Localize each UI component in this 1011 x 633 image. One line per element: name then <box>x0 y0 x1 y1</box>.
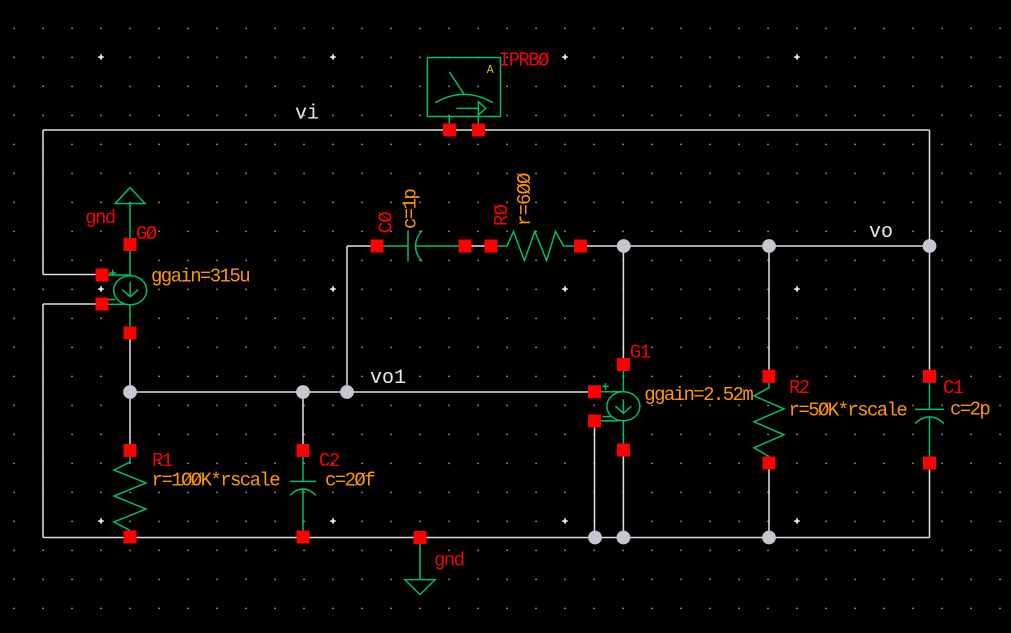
svg-text:r=5ØK*rscale: r=5ØK*rscale <box>789 400 908 422</box>
svg-text:G1: G1 <box>630 342 651 364</box>
svg-text:RØ: RØ <box>491 204 513 226</box>
svg-text:ggain=2.52m: ggain=2.52m <box>644 384 753 406</box>
svg-text:IPRBØ: IPRBØ <box>499 50 549 72</box>
svg-text:A: A <box>487 64 494 77</box>
svg-text:c=2p: c=2p <box>950 399 990 421</box>
svg-text:gnd: gnd <box>434 550 464 572</box>
svg-text:GØ: GØ <box>136 223 157 245</box>
svg-text:ggain=315u: ggain=315u <box>151 266 249 288</box>
svg-text:C1: C1 <box>943 377 964 399</box>
svg-text:c=1p: c=1p <box>400 189 422 229</box>
svg-text:r=1ØØK*rscale: r=1ØØK*rscale <box>152 470 281 492</box>
svg-text:gnd: gnd <box>85 207 115 229</box>
svg-text:CØ: CØ <box>376 212 398 234</box>
svg-text:c=2Øf: c=2Øf <box>325 470 375 492</box>
svg-text:vo1: vo1 <box>370 367 406 390</box>
svg-text:vi: vi <box>295 103 319 126</box>
svg-text:r=6ØØ: r=6ØØ <box>514 173 536 226</box>
svg-text:vo: vo <box>869 221 893 244</box>
svg-text:R2: R2 <box>789 377 810 399</box>
